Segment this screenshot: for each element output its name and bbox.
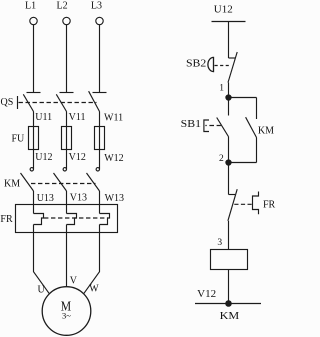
wire FR contact to coil	[228, 221, 230, 250]
wire U12 to SB2	[228, 22, 230, 59]
svg-text:V13: V13	[70, 193, 87, 204]
wire node1 to SB1	[228, 98, 230, 116]
wire QS to FU pole3	[99, 112, 101, 127]
wire FR to motor pole3	[84, 225, 100, 294]
node U12 (control)	[212, 4, 246, 21]
svg-text:KM: KM	[258, 126, 274, 137]
pushbutton SB1	[181, 118, 229, 137]
svg-text:KM: KM	[220, 311, 240, 322]
contact KM auxiliary	[246, 117, 275, 137]
wire node1 branch top	[229, 97, 257, 99]
node 2	[219, 154, 231, 165]
svg-text:KM: KM	[4, 179, 20, 190]
wire QS to FU pole2	[66, 112, 68, 127]
svg-text:W: W	[89, 284, 99, 295]
wire KM branch lower	[256, 138, 258, 163]
wire FR to motor pole1	[34, 225, 50, 294]
svg-text:QS: QS	[1, 97, 14, 108]
svg-text:2: 2	[219, 154, 224, 164]
svg-text:V12: V12	[69, 152, 86, 163]
thermal relay FR heaters	[0, 205, 117, 233]
fuse FU	[12, 127, 105, 150]
svg-text:U11: U11	[35, 112, 52, 123]
wire L2 to QS	[66, 25, 68, 93]
svg-text:U12: U12	[35, 152, 52, 163]
svg-text:W11: W11	[104, 112, 123, 123]
wire KM branch upper	[256, 98, 258, 120]
motor M	[42, 287, 91, 336]
wire FU to KM pole3	[99, 150, 101, 170]
svg-text:L3: L3	[91, 1, 102, 12]
svg-text:3: 3	[217, 238, 222, 248]
svg-text:W13: W13	[105, 193, 124, 204]
wire SB1 to node 2	[228, 137, 230, 163]
svg-text:SB2: SB2	[186, 59, 206, 70]
wire KM to FR pole2	[66, 191, 68, 214]
svg-text:3~: 3~	[62, 310, 71, 320]
wire FU to KM pole2	[66, 150, 68, 170]
switch QS	[1, 91, 107, 111]
wire branch bottom	[229, 162, 257, 164]
contactor main contacts KM	[4, 168, 100, 191]
svg-text:V12: V12	[197, 289, 216, 300]
svg-text:SB1: SB1	[181, 119, 201, 130]
wire KM to FR pole1	[33, 191, 35, 214]
svg-text:FR: FR	[0, 214, 13, 225]
contact FR normally-closed	[228, 189, 276, 221]
node L2	[57, 1, 71, 25]
wire node2 to FR contact	[228, 163, 230, 195]
wire FU to KM pole1	[33, 150, 35, 170]
wire SB2 to node 1	[228, 83, 230, 98]
svg-text:FU: FU	[12, 134, 26, 145]
svg-text:U: U	[38, 285, 46, 296]
svg-text:U12: U12	[214, 4, 233, 15]
wire coil to V12 rail	[228, 270, 230, 304]
node L1	[25, 1, 37, 25]
svg-text:V: V	[70, 276, 78, 287]
wire QS to FU pole1	[33, 112, 35, 127]
svg-text:L2: L2	[57, 1, 68, 12]
wire L3 to QS	[99, 25, 101, 93]
svg-text:1: 1	[219, 84, 224, 94]
node L3	[91, 1, 103, 25]
wire L1 to QS	[33, 25, 35, 93]
svg-text:U13: U13	[37, 193, 54, 204]
svg-text:V11: V11	[69, 112, 86, 123]
pushbutton SB2	[186, 52, 237, 83]
wire KM to FR pole3	[99, 191, 101, 214]
node 1	[219, 84, 231, 101]
wire FR to motor pole2	[66, 225, 68, 288]
svg-text:L1: L1	[25, 1, 36, 12]
coil KM	[211, 250, 248, 270]
svg-text:FR: FR	[263, 200, 276, 211]
node V12	[195, 289, 261, 306]
svg-text:W12: W12	[104, 153, 123, 164]
